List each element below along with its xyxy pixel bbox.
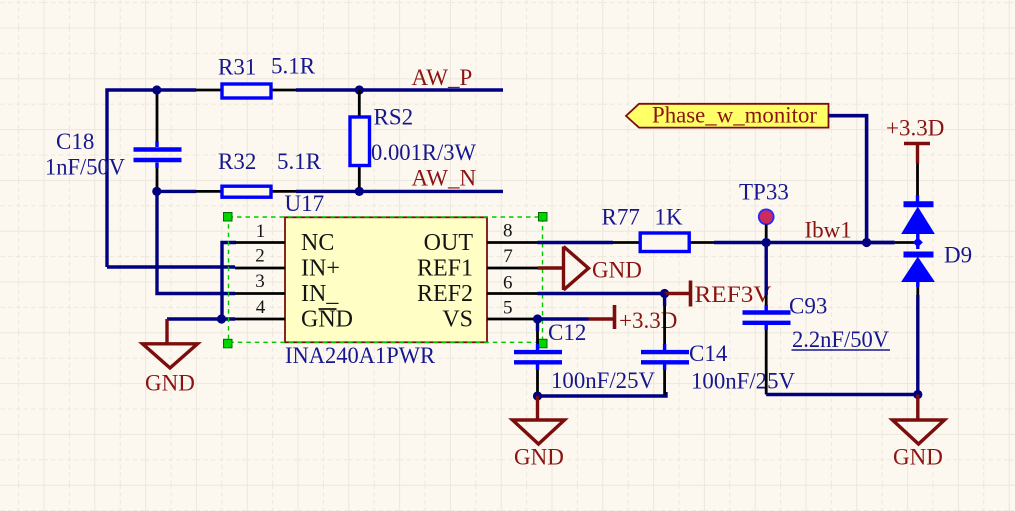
wire REF2 to C14 top (538, 292, 665, 295)
pin 5 (487, 318, 538, 321)
svg-text:C18: C18 (56, 129, 94, 154)
svg-text:RS2: RS2 (374, 105, 414, 130)
wire C12 to C14 ground rail (538, 392, 667, 396)
svg-text:U17: U17 (285, 191, 325, 216)
selection handle bottom-left (224, 339, 233, 348)
capacitor C18 (134, 150, 182, 161)
value 1nF/50V (45, 155, 125, 180)
wire Phase_w_monitor to Ibw1 node (829, 116, 867, 243)
junction Phase wire / Ibw1 (862, 238, 871, 247)
svg-text:7: 7 (503, 246, 513, 267)
wire bottom rail right segment to AW_N (296, 190, 503, 193)
resistor RS2 (350, 117, 370, 166)
pin 2 (235, 267, 285, 270)
svg-text:8: 8 (503, 221, 513, 242)
svg-text:AW_N: AW_N (412, 166, 477, 191)
capacitor C14 pins (663, 294, 666, 395)
selection handle bottom-right (539, 339, 548, 348)
label GND (right) (893, 445, 943, 470)
svg-text:D9: D9 (944, 243, 972, 268)
label D9 (944, 243, 972, 268)
svg-text:C12: C12 (548, 320, 586, 345)
pin 4 name GND (with overbar on N) (301, 307, 353, 333)
junction bottom rail / RS2 (355, 187, 364, 196)
label TP33 (739, 180, 789, 205)
label REF3V (695, 282, 772, 307)
pin 5 name VS (442, 307, 473, 333)
power port REF3V (665, 281, 691, 307)
value 5.1R (R32) (277, 149, 322, 174)
diode D9 bottom pin (916, 287, 919, 295)
wire Ibw1 node to D9 (867, 241, 914, 244)
label C14 (689, 341, 728, 366)
svg-text:Ibw1: Ibw1 (805, 218, 852, 243)
svg-text:Phase_w_monitor: Phase_w_monitor (652, 103, 817, 128)
wire OUT to R77 (538, 241, 614, 244)
svg-text:5.1R: 5.1R (271, 54, 316, 79)
resistor R31 pins (196, 89, 296, 92)
svg-text:4: 4 (256, 297, 266, 318)
pin 4 number (256, 297, 266, 318)
svg-text:GND: GND (592, 258, 642, 283)
capacitor C93 (743, 313, 791, 323)
label GND (left) (145, 371, 195, 396)
svg-text:6: 6 (503, 273, 513, 294)
wire IN+ from left rail to pin 2 (107, 265, 235, 268)
svg-text:VS: VS (442, 307, 473, 333)
selection handle top-left (224, 213, 233, 222)
pin 6 (487, 292, 538, 295)
capacitor C93 pins (765, 243, 768, 395)
pin 6 number (503, 273, 513, 294)
wire top rail right segment to AW_P (296, 88, 503, 91)
pin 7 (487, 267, 538, 270)
pin 6 name REF2 (417, 281, 473, 307)
power port GND arrow (REF1) (538, 247, 589, 291)
svg-text:INA240A1PWR: INA240A1PWR (285, 343, 436, 368)
diode D9 top pin (916, 164, 919, 203)
svg-text:1nF/50V: 1nF/50V (45, 155, 125, 180)
resistor R32 (222, 186, 271, 197)
pin 1 name NC (301, 230, 334, 256)
svg-text:GND: GND (893, 445, 943, 470)
label +3.3D (VS) (619, 308, 677, 333)
pin 1 number (256, 221, 266, 242)
resistor R77 pins (613, 241, 714, 244)
wire IN_ from bottom rail to pin 3 (157, 191, 235, 293)
value 100nF/25V (C14) (691, 369, 795, 394)
label RS2 (374, 105, 414, 130)
pin 8 number (503, 221, 513, 242)
wire GND stub to pin 4 (167, 317, 235, 320)
wire VS to +3.3D (538, 317, 589, 320)
capacitor C12 (514, 352, 562, 362)
designator U17 (285, 191, 325, 216)
junction top rail / C18 (152, 85, 161, 94)
value 0.001R/3W (371, 140, 476, 165)
wire C93 to ground rail (766, 393, 918, 396)
svg-text:3: 3 (255, 271, 265, 292)
value 2.2nF/50V (underlined) (792, 327, 891, 352)
selection handle top-right (539, 213, 548, 222)
pin 2 number (255, 246, 265, 267)
junction TP33 / C93 (762, 238, 771, 247)
pin 1 (235, 241, 285, 244)
wire R77 to Ibw1 node (714, 241, 895, 244)
ground GND (right) (893, 395, 945, 445)
test point TP33 (759, 209, 774, 238)
pin 3 name IN_ (301, 281, 339, 307)
wire bottom rail left segment (AW_N net) (157, 190, 196, 193)
svg-text:AW_P: AW_P (412, 65, 473, 90)
value INA240A1PWR (285, 343, 436, 368)
svg-text:TP33: TP33 (739, 180, 789, 205)
svg-text:+3.3D: +3.3D (886, 116, 944, 141)
svg-text:1: 1 (256, 221, 266, 242)
value 1K (655, 205, 684, 230)
label R77 (602, 205, 640, 230)
svg-text:C14: C14 (689, 341, 728, 366)
capacitor C12 pins (536, 319, 539, 395)
label C12 (548, 320, 586, 345)
pin 2 name IN+ (301, 256, 340, 282)
ground GND (left) (143, 319, 198, 368)
svg-text:OUT: OUT (424, 230, 474, 256)
svg-text:R77: R77 (602, 205, 640, 230)
wire top rail left segment (AW_P net) (107, 90, 196, 267)
capacitor C18 pins (156, 90, 159, 191)
wire D9 to ground rail (916, 295, 919, 395)
pin 7 number (503, 246, 513, 267)
port Phase_w_monitor (626, 103, 829, 128)
wire NC-GND link vertical (222, 243, 236, 320)
svg-text:100nF/25V: 100nF/25V (551, 368, 655, 393)
svg-text:2: 2 (255, 246, 265, 267)
pin 8 (487, 241, 538, 244)
pin 5 number (503, 298, 513, 319)
net label AW_P (412, 65, 473, 90)
capacitor C14 (641, 352, 689, 362)
power port +3.3D (VS) (589, 305, 615, 329)
svg-text:IN_: IN_ (301, 281, 339, 307)
svg-text:REF2: REF2 (417, 281, 473, 307)
label GND (REF1 arrow) (592, 258, 642, 283)
resistor R32 pins (196, 190, 296, 193)
svg-text:IN+: IN+ (301, 256, 340, 282)
svg-text:100nF/25V: 100nF/25V (691, 369, 795, 394)
junction REF2 / C14 / REF3V (660, 289, 669, 298)
svg-text:GND: GND (301, 307, 353, 333)
junction top rail / RS2 (355, 85, 364, 94)
svg-text:NC: NC (301, 230, 334, 256)
svg-text:+3.3D: +3.3D (619, 308, 677, 333)
svg-text:C93: C93 (789, 294, 827, 319)
net label AW_N (412, 166, 477, 191)
svg-text:GND: GND (145, 371, 195, 396)
label GND (middle) (514, 445, 564, 470)
svg-text:REF3V: REF3V (695, 282, 772, 307)
power port +3.3D (top right) (886, 116, 944, 164)
value 100nF/25V (C12) (551, 368, 655, 393)
svg-text:0.001R/3W: 0.001R/3W (371, 140, 476, 165)
label C93 (789, 294, 827, 319)
junction ground rail / D9 / GND (913, 390, 922, 399)
label R31 (218, 55, 256, 80)
svg-text:5: 5 (503, 298, 513, 319)
junction bottom rail / C18 (152, 187, 161, 196)
pin 4 (235, 318, 285, 321)
net label Ibw1 (805, 218, 852, 243)
junction C12 / rail / GND (533, 391, 542, 400)
pin 3 (235, 292, 285, 295)
resistor R77 (640, 233, 689, 252)
svg-text:R32: R32 (218, 149, 256, 174)
svg-text:2.2nF/50V: 2.2nF/50V (792, 327, 889, 352)
junction pin4 / GND link (217, 314, 226, 323)
svg-text:GND: GND (514, 445, 564, 470)
resistor RS2 pins (358, 90, 361, 191)
pin 7 name REF1 (417, 256, 473, 282)
value 5.1R (R31) (271, 54, 316, 79)
diode D9 (lower, cathode bar and triangle) (902, 255, 934, 288)
selection box around U17 (229, 217, 543, 342)
diode D9 (upper, cathode bar and triangle) (902, 204, 934, 249)
svg-text:1K: 1K (655, 205, 684, 230)
junction VS / C12 / +3.3D (533, 314, 542, 323)
pin 8 name OUT (424, 230, 474, 256)
op-amp U17 body (285, 217, 487, 342)
resistor R31 (222, 84, 271, 98)
label C18 (56, 129, 94, 154)
svg-text:5.1R: 5.1R (277, 149, 322, 174)
svg-text:R31: R31 (218, 55, 256, 80)
label R32 (218, 149, 256, 174)
ground GND (middle) (513, 396, 565, 444)
svg-text:REF1: REF1 (417, 256, 473, 282)
pin 3 number (255, 271, 265, 292)
